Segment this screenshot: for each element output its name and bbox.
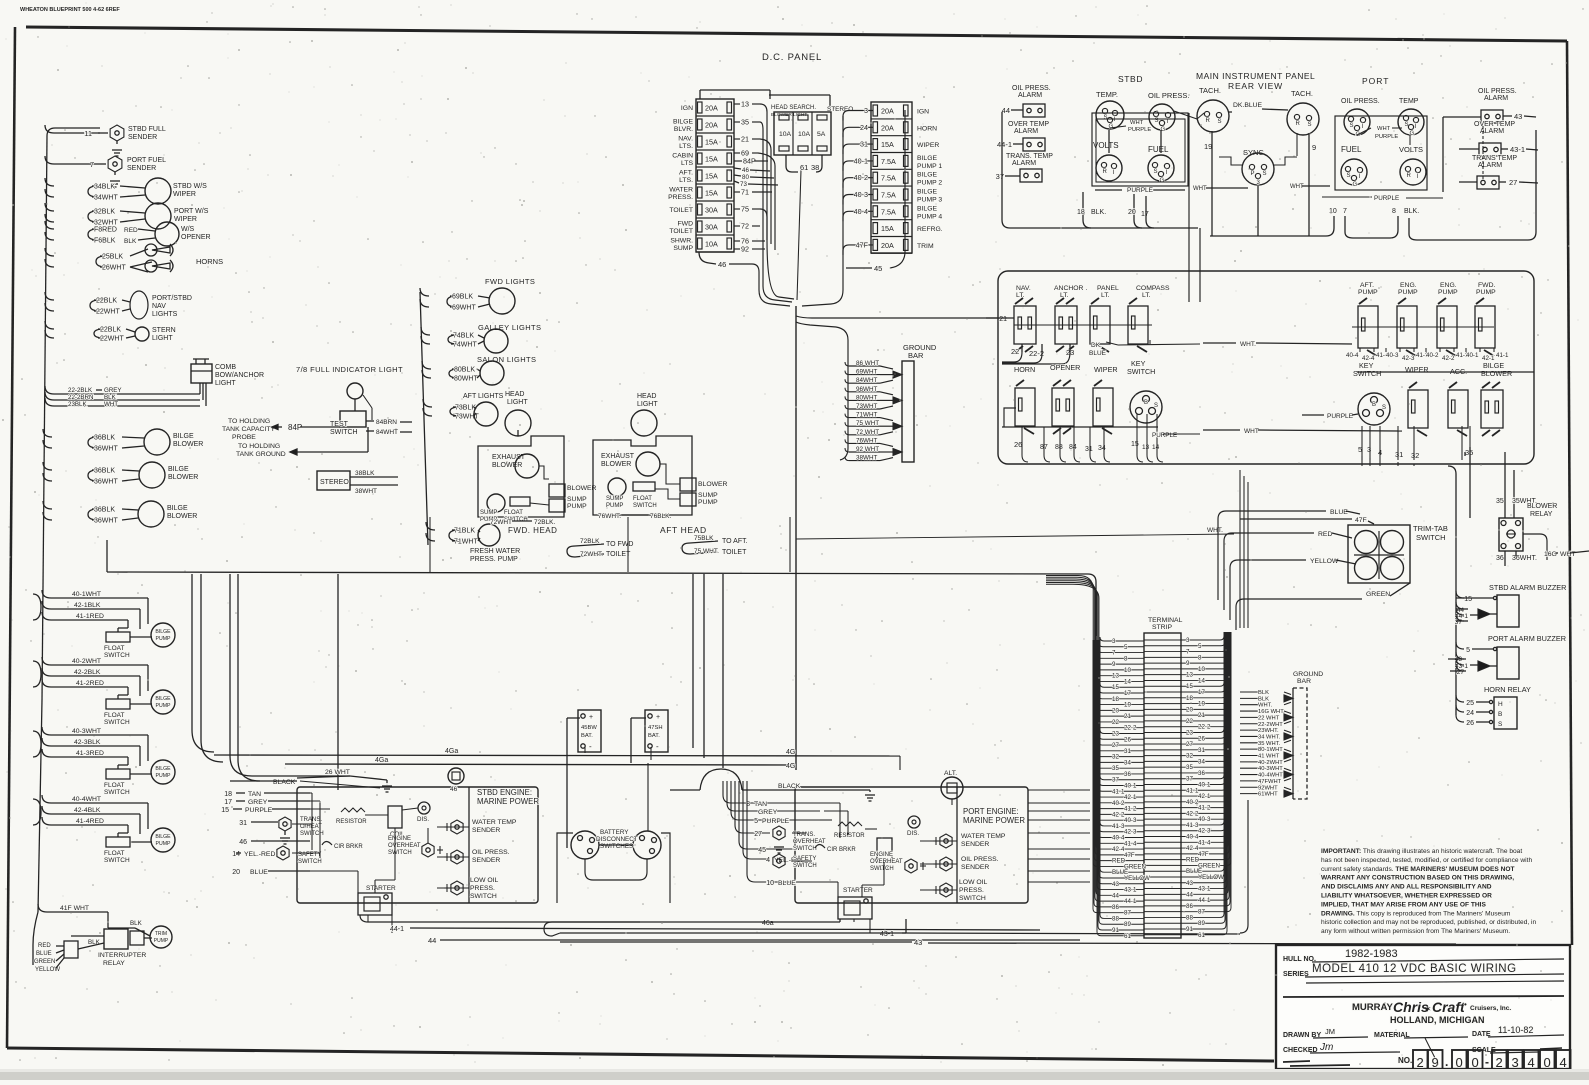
svg-text:•: • xyxy=(1464,1000,1467,1009)
svg-text:72BLK: 72BLK xyxy=(580,538,600,545)
svg-text:STARTER: STARTER xyxy=(843,887,873,894)
svg-text:76WHT: 76WHT xyxy=(856,437,877,444)
svg-text:BAR: BAR xyxy=(1297,678,1311,685)
svg-text:BLOWER: BLOWER xyxy=(168,474,198,481)
svg-text:.: . xyxy=(1445,1055,1448,1069)
svg-text:41-2: 41-2 xyxy=(1124,806,1137,813)
svg-text:40-4: 40-4 xyxy=(1112,835,1125,842)
svg-text:15A: 15A xyxy=(705,172,718,181)
svg-text:9: 9 xyxy=(1312,143,1316,152)
svg-text:SWITCH: SWITCH xyxy=(633,503,657,509)
svg-text:74BLK: 74BLK xyxy=(453,333,474,340)
svg-text:GALLEY LIGHTS: GALLEY LIGHTS xyxy=(478,323,541,332)
svg-text:22-2WHT: 22-2WHT xyxy=(1258,722,1283,728)
svg-text:TRIM-TAB: TRIM-TAB xyxy=(1413,524,1448,533)
svg-text:10A: 10A xyxy=(798,131,811,138)
svg-text:PUMP: PUMP xyxy=(1398,289,1418,296)
svg-text:46: 46 xyxy=(742,167,749,174)
svg-text:LT.: LT. xyxy=(1142,292,1151,299)
svg-text:AFT HEAD: AFT HEAD xyxy=(660,525,707,535)
svg-text:CIR BRKR: CIR BRKR xyxy=(334,844,363,850)
svg-text:BATTERY: BATTERY xyxy=(600,829,629,836)
svg-text:26: 26 xyxy=(1014,440,1022,449)
svg-text:TANK GROUND: TANK GROUND xyxy=(236,451,286,458)
svg-text:S: S xyxy=(1347,173,1351,179)
svg-text:7.5A: 7.5A xyxy=(881,174,896,183)
svg-text:PURPLE: PURPLE xyxy=(245,807,273,814)
svg-text:COMB: COMB xyxy=(215,364,236,371)
svg-text:OPENER: OPENER xyxy=(1050,363,1080,372)
svg-text:S: S xyxy=(1154,169,1158,175)
svg-text:OVER TEMP: OVER TEMP xyxy=(1008,121,1049,128)
svg-text:25: 25 xyxy=(1466,700,1474,707)
svg-text:38: 38 xyxy=(811,163,819,172)
svg-text:36WHT: 36WHT xyxy=(94,518,118,525)
svg-text:PRESS.: PRESS. xyxy=(668,194,693,201)
svg-text:BLUE: BLUE xyxy=(1089,350,1107,357)
svg-text:PUMP: PUMP xyxy=(156,703,172,709)
svg-text:27: 27 xyxy=(1186,741,1193,748)
svg-text:40-4WHT: 40-4WHT xyxy=(1258,773,1283,779)
svg-text:WHT: WHT xyxy=(1290,184,1304,190)
svg-text:40-2: 40-2 xyxy=(1426,352,1439,359)
svg-text:PUMP: PUMP xyxy=(154,938,169,944)
svg-text:40-4: 40-4 xyxy=(1186,834,1199,841)
svg-text:LTS.: LTS. xyxy=(679,143,693,150)
svg-text:WHT.: WHT. xyxy=(1258,703,1273,709)
svg-text:OVER TEMP: OVER TEMP xyxy=(1474,121,1515,128)
svg-text:20A: 20A xyxy=(881,241,894,250)
svg-text:AFT.: AFT. xyxy=(679,170,693,177)
svg-text:SHWR.: SHWR. xyxy=(670,238,693,245)
svg-text:17: 17 xyxy=(1198,689,1205,696)
svg-text:23BLK: 23BLK xyxy=(68,401,87,408)
svg-text:RELAY: RELAY xyxy=(103,960,125,967)
svg-text:44: 44 xyxy=(1186,891,1193,898)
svg-text:NO.: NO. xyxy=(1398,1056,1412,1065)
svg-text:86: 86 xyxy=(1112,904,1119,911)
svg-text:STEREO: STEREO xyxy=(320,479,349,486)
svg-text:91: 91 xyxy=(1186,926,1193,933)
svg-text:34BLK: 34BLK xyxy=(94,184,115,191)
svg-text:4: 4 xyxy=(766,857,770,864)
svg-text:PUMP: PUMP xyxy=(606,503,623,509)
svg-text:35: 35 xyxy=(1496,498,1504,505)
svg-text:IMPLIED, THAT MAY ARISE FROM A: IMPLIED, THAT MAY ARISE FROM ANY USE OF … xyxy=(1321,901,1486,908)
svg-text:BILGE: BILGE xyxy=(155,766,171,772)
svg-text:LIGHTS: LIGHTS xyxy=(152,311,178,318)
svg-text:PUMP: PUMP xyxy=(156,841,172,847)
svg-text:HORNS: HORNS xyxy=(196,257,223,266)
svg-text:TOILET: TOILET xyxy=(606,551,631,558)
svg-text:47SH: 47SH xyxy=(648,725,663,731)
svg-text:84WHT: 84WHT xyxy=(856,377,877,384)
svg-text:OVERHEAT: OVERHEAT xyxy=(793,839,826,845)
svg-text:7/8 FULL INDICATOR LIGHT: 7/8 FULL INDICATOR LIGHT xyxy=(296,365,403,374)
svg-text:7: 7 xyxy=(90,160,94,169)
svg-text:22-2BLK: 22-2BLK xyxy=(68,387,93,394)
svg-text:22: 22 xyxy=(1112,719,1119,726)
svg-text:DK.: DK. xyxy=(1091,342,1102,349)
svg-text:44: 44 xyxy=(1002,106,1010,115)
svg-text:BLK.: BLK. xyxy=(1404,208,1419,215)
svg-text:BILGE: BILGE xyxy=(673,119,693,126)
svg-text:36WHT.: 36WHT. xyxy=(1512,555,1537,562)
svg-text:21: 21 xyxy=(1124,713,1131,720)
svg-text:GREEN: GREEN xyxy=(1366,591,1390,598)
svg-text:41 WHT: 41 WHT xyxy=(1258,754,1280,760)
svg-text:92WHT: 92WHT xyxy=(1258,785,1278,791)
svg-text:S: S xyxy=(1498,721,1503,728)
svg-text:ENGINE: ENGINE xyxy=(870,852,893,858)
svg-text:BAR: BAR xyxy=(908,351,924,360)
svg-text:20A: 20A xyxy=(705,121,718,130)
svg-text:7: 7 xyxy=(1343,208,1347,215)
svg-text:DRAWING. This copy is reprodu: DRAWING. This copy is reproduced from Th… xyxy=(1321,910,1511,917)
svg-text:BILGE: BILGE xyxy=(917,172,937,179)
svg-text:31: 31 xyxy=(1395,450,1403,459)
svg-text:42-2: 42-2 xyxy=(1186,810,1199,817)
svg-text:PROBE: PROBE xyxy=(232,434,256,441)
svg-text:PUMP: PUMP xyxy=(1358,289,1378,296)
svg-text:75 WHT: 75 WHT xyxy=(856,420,879,427)
svg-text:14: 14 xyxy=(1198,677,1205,684)
svg-text:43: 43 xyxy=(1514,112,1522,121)
svg-text:ALARM: ALARM xyxy=(1012,160,1036,167)
svg-text:LOW OIL: LOW OIL xyxy=(470,877,499,884)
svg-text:61: 61 xyxy=(1198,932,1205,939)
svg-text:0: 0 xyxy=(1456,1055,1463,1070)
svg-text:80BLK: 80BLK xyxy=(454,367,475,374)
svg-text:PUMP: PUMP xyxy=(567,503,587,510)
svg-text:26WHT: 26WHT xyxy=(102,265,126,272)
svg-text:5: 5 xyxy=(1198,643,1202,650)
svg-text:73WHT: 73WHT xyxy=(856,403,877,410)
svg-text:26: 26 xyxy=(1198,735,1205,742)
svg-text:ALARM: ALARM xyxy=(1484,95,1508,102)
svg-text:75: 75 xyxy=(741,205,749,214)
svg-text:3: 3 xyxy=(1112,638,1116,645)
svg-text:40-3: 40-3 xyxy=(1124,817,1137,824)
svg-text:41-3RED: 41-3RED xyxy=(76,750,104,757)
svg-text:88: 88 xyxy=(1186,914,1193,921)
svg-text:NAV.: NAV. xyxy=(678,136,693,143)
svg-text:41-2RED: 41-2RED xyxy=(76,680,104,687)
svg-text:Craft: Craft xyxy=(1432,999,1466,1015)
svg-text:WHT: WHT xyxy=(1377,126,1391,132)
svg-text:PUMP: PUMP xyxy=(698,499,718,506)
svg-text:GREY: GREY xyxy=(758,809,778,816)
svg-text:41-4RED: 41-4RED xyxy=(76,818,104,825)
svg-text:0: 0 xyxy=(1472,1055,1479,1070)
svg-text:R: R xyxy=(1296,121,1301,127)
svg-text:ALARM: ALARM xyxy=(1480,128,1504,135)
svg-text:31: 31 xyxy=(1085,446,1093,453)
svg-text:96WHT: 96WHT xyxy=(856,386,877,393)
svg-text:46: 46 xyxy=(450,786,458,793)
svg-text:7.5A: 7.5A xyxy=(881,157,896,166)
svg-text:41-1: 41-1 xyxy=(1112,788,1125,795)
svg-text:9: 9 xyxy=(1432,1055,1439,1070)
svg-text:19: 19 xyxy=(1124,702,1131,709)
svg-text:26 WHT: 26 WHT xyxy=(325,769,350,776)
svg-text:41-4: 41-4 xyxy=(1198,839,1211,846)
svg-text:STBD W/S: STBD W/S xyxy=(173,183,207,190)
svg-text:38WHT: 38WHT xyxy=(355,488,377,495)
svg-text:84WHT: 84WHT xyxy=(376,429,398,436)
svg-text:OPENER: OPENER xyxy=(181,234,211,241)
svg-text:BILGE: BILGE xyxy=(917,155,937,162)
svg-text:40-3WHT: 40-3WHT xyxy=(72,728,101,735)
svg-text:TRIM: TRIM xyxy=(917,243,934,250)
svg-text:STERN: STERN xyxy=(152,327,176,334)
svg-text:BLK.: BLK. xyxy=(1091,209,1106,216)
svg-text:9: 9 xyxy=(1112,661,1116,668)
svg-text:44-1: 44-1 xyxy=(390,926,404,933)
svg-text:43-1: 43-1 xyxy=(880,931,894,938)
svg-text:PANEL: PANEL xyxy=(1097,285,1119,292)
svg-text:42-3BLK: 42-3BLK xyxy=(74,739,101,746)
svg-text:46: 46 xyxy=(718,260,726,269)
svg-text:S: S xyxy=(1350,123,1354,129)
svg-text:18: 18 xyxy=(1186,695,1193,702)
svg-text:15A: 15A xyxy=(705,138,718,147)
svg-text:4G: 4G xyxy=(786,763,795,770)
svg-text:4Ga: 4Ga xyxy=(375,757,388,764)
svg-text:NAV.: NAV. xyxy=(1016,285,1031,292)
svg-text:ALARM: ALARM xyxy=(1478,162,1502,169)
svg-text:46: 46 xyxy=(239,839,247,846)
svg-text:STBD: STBD xyxy=(1118,74,1143,84)
svg-text:DIS.: DIS. xyxy=(907,830,919,837)
svg-text:TRANS.: TRANS. xyxy=(300,817,322,823)
svg-text:18: 18 xyxy=(224,791,232,798)
svg-text:72WHT.: 72WHT. xyxy=(580,551,603,558)
svg-text:43-1: 43-1 xyxy=(1510,145,1525,154)
svg-text:69WHT: 69WHT xyxy=(452,305,476,312)
svg-text:BLOWER: BLOWER xyxy=(567,485,597,492)
svg-text:STBD ENGINE:: STBD ENGINE: xyxy=(477,788,532,797)
svg-text:BLOWER: BLOWER xyxy=(167,513,197,520)
svg-text:WHT: WHT xyxy=(1193,186,1207,192)
svg-text:23WHT.: 23WHT. xyxy=(1258,728,1279,734)
svg-text:FLOAT: FLOAT xyxy=(104,645,124,652)
svg-text:9: 9 xyxy=(1186,660,1190,667)
svg-text:PORT ENGINE:: PORT ENGINE: xyxy=(963,807,1019,816)
svg-text:18: 18 xyxy=(1077,209,1085,216)
svg-text:15A: 15A xyxy=(881,224,894,233)
svg-text:GREY: GREY xyxy=(104,387,122,394)
svg-text:14: 14 xyxy=(1124,678,1131,685)
svg-text:72: 72 xyxy=(741,222,749,231)
svg-text:19: 19 xyxy=(1204,142,1212,151)
svg-text:86: 86 xyxy=(1186,903,1193,910)
svg-text:OIL PRESS.: OIL PRESS. xyxy=(472,849,510,856)
svg-text:FLOAT: FLOAT xyxy=(504,510,523,516)
svg-text:BLUE: BLUE xyxy=(250,869,268,876)
svg-text:F6BLK: F6BLK xyxy=(94,238,116,245)
svg-text:MARINE POWER: MARINE POWER xyxy=(963,816,1025,825)
svg-text:PUMP 4: PUMP 4 xyxy=(917,213,942,220)
svg-text:TERMINAL: TERMINAL xyxy=(1148,617,1183,624)
svg-text:42-1: 42-1 xyxy=(1124,794,1137,801)
svg-text:2: 2 xyxy=(1496,1055,1503,1070)
svg-text:PURPLE: PURPLE xyxy=(1127,187,1154,194)
svg-text:40-1: 40-1 xyxy=(854,156,868,165)
svg-text:ANCHOR .: ANCHOR . xyxy=(1054,285,1087,292)
svg-text:ENG.: ENG. xyxy=(1400,282,1417,289)
svg-text:44: 44 xyxy=(428,936,436,945)
svg-text:MODEL 410 12 VDC BASIC WIRING: MODEL 410 12 VDC BASIC WIRING xyxy=(1312,963,1517,975)
svg-text:historic collection and may no: historic collection and may not be repro… xyxy=(1321,919,1536,926)
svg-text:69WHT: 69WHT xyxy=(856,369,877,376)
svg-text:B: B xyxy=(1498,711,1502,718)
svg-text:4: 4 xyxy=(1560,1055,1567,1070)
svg-text:PURPLE: PURPLE xyxy=(1152,432,1177,439)
svg-text:17: 17 xyxy=(224,799,232,806)
svg-text:11-10-82: 11-10-82 xyxy=(1498,1025,1533,1035)
svg-text:FUEL: FUEL xyxy=(1148,145,1169,154)
svg-text:84: 84 xyxy=(1069,444,1077,451)
svg-text:PURPLE: PURPLE xyxy=(1128,127,1151,133)
svg-text:45BW: 45BW xyxy=(581,725,597,731)
svg-text:COMPASS: COMPASS xyxy=(1136,285,1170,292)
svg-text:SENDER: SENDER xyxy=(472,827,500,834)
svg-text:91: 91 xyxy=(1112,927,1119,934)
svg-text:SUMP: SUMP xyxy=(698,492,718,499)
svg-text:75BLK: 75BLK xyxy=(694,535,714,542)
svg-text:STRIP: STRIP xyxy=(1152,624,1172,631)
svg-text:25BLK: 25BLK xyxy=(102,254,123,261)
svg-text:84BRN: 84BRN xyxy=(376,419,397,426)
svg-text:IMPORTANT: This drawing illus: IMPORTANT: This drawing illustrates an h… xyxy=(1321,848,1522,855)
svg-text:22: 22 xyxy=(1011,347,1019,356)
svg-text:TRANS. TEMP: TRANS. TEMP xyxy=(1006,153,1053,160)
svg-text:35: 35 xyxy=(1186,764,1193,771)
svg-text:WHT.: WHT. xyxy=(1207,527,1223,534)
svg-text:15: 15 xyxy=(1112,684,1119,691)
svg-text:18: 18 xyxy=(1112,696,1119,703)
svg-text:BAT.: BAT. xyxy=(581,733,593,739)
svg-text:34: 34 xyxy=(1198,758,1205,765)
svg-text:RED: RED xyxy=(38,943,51,949)
svg-text:SWITCH: SWITCH xyxy=(870,866,894,872)
svg-text:72 WHT: 72 WHT xyxy=(856,429,879,436)
svg-text:H: H xyxy=(1498,701,1503,708)
svg-text:19: 19 xyxy=(1198,701,1205,708)
svg-text:2: 2 xyxy=(1417,1055,1424,1070)
svg-text:1982-1983: 1982-1983 xyxy=(1345,948,1398,960)
svg-text:G: G xyxy=(1109,124,1114,130)
svg-text:42-3: 42-3 xyxy=(1198,828,1211,835)
svg-text:38WHT: 38WHT xyxy=(856,455,877,462)
svg-text:LIGHT: LIGHT xyxy=(152,335,173,342)
svg-text:89: 89 xyxy=(1198,920,1205,927)
svg-text:has not been inspected, tested: has not been inspected, tested, modified… xyxy=(1321,857,1532,864)
svg-text:CIR BRKR: CIR BRKR xyxy=(827,847,856,853)
svg-text:22-2BRN: 22-2BRN xyxy=(68,394,93,401)
svg-text:WATER TEMP: WATER TEMP xyxy=(472,819,517,826)
svg-text:76WHT.: 76WHT. xyxy=(598,513,621,520)
svg-text:42-2: 42-2 xyxy=(1442,355,1455,362)
svg-text:20: 20 xyxy=(1112,707,1119,714)
svg-text:40-1: 40-1 xyxy=(1466,352,1479,359)
svg-text:15: 15 xyxy=(1131,441,1139,448)
svg-text:LTS: LTS xyxy=(681,160,693,167)
svg-text:71WHT: 71WHT xyxy=(454,539,478,546)
svg-text:61: 61 xyxy=(1124,933,1131,940)
svg-text:-: - xyxy=(589,742,592,751)
svg-text:22-2: 22-2 xyxy=(1198,724,1211,731)
svg-text:YELLOW: YELLOW xyxy=(1198,874,1224,881)
svg-text:8: 8 xyxy=(1124,655,1128,662)
svg-text:22WHT: 22WHT xyxy=(96,309,120,316)
svg-text:40-3WHT: 40-3WHT xyxy=(1258,766,1283,772)
svg-text:43-1: 43-1 xyxy=(1198,886,1211,893)
svg-text:4G: 4G xyxy=(786,749,795,756)
svg-text:SWITCH: SWITCH xyxy=(1353,369,1381,378)
svg-text:7: 7 xyxy=(1112,650,1116,657)
svg-text:BLK: BLK xyxy=(1258,690,1269,696)
svg-text:BILGE: BILGE xyxy=(917,205,937,212)
svg-text:TANK CAPACITY: TANK CAPACITY xyxy=(222,426,275,433)
svg-text:TRANS TEMP: TRANS TEMP xyxy=(1472,155,1517,162)
svg-text:WIPER: WIPER xyxy=(1405,365,1429,374)
svg-text:BLACK: BLACK xyxy=(273,779,296,786)
svg-text:37: 37 xyxy=(996,172,1004,181)
svg-text:43: 43 xyxy=(1186,880,1193,887)
svg-text:20: 20 xyxy=(1128,209,1136,216)
svg-text:WHEATON BLUEPRINT 500 4-62 6RE: WHEATON BLUEPRINT 500 4-62 6REF xyxy=(20,7,120,13)
svg-text:PURPLE: PURPLE xyxy=(762,818,790,825)
svg-text:10: 10 xyxy=(1124,667,1131,674)
svg-text:87: 87 xyxy=(1198,909,1205,916)
svg-text:REAR VIEW: REAR VIEW xyxy=(1228,81,1283,91)
svg-text:40-2WHT: 40-2WHT xyxy=(1258,760,1283,766)
svg-text:3: 3 xyxy=(1186,637,1190,644)
svg-text:DIS.: DIS. xyxy=(417,816,429,823)
svg-text:SWITCH: SWITCH xyxy=(330,429,358,436)
svg-text:SWITCH: SWITCH xyxy=(388,850,412,856)
svg-text:HORN: HORN xyxy=(1014,365,1035,374)
svg-text:LIGHT: LIGHT xyxy=(637,401,658,408)
svg-text:WHT: WHT xyxy=(1130,120,1144,126)
svg-text:IGN: IGN xyxy=(917,109,929,116)
svg-text:10A: 10A xyxy=(705,240,718,249)
svg-text:32: 32 xyxy=(1186,753,1193,760)
svg-text:35: 35 xyxy=(741,118,749,127)
svg-text:SWITCHES: SWITCHES xyxy=(600,843,633,850)
svg-text:34 WHT.: 34 WHT. xyxy=(1258,734,1281,740)
svg-text:42-3: 42-3 xyxy=(1124,829,1137,836)
svg-text:S: S xyxy=(1154,403,1158,409)
svg-text:BILGE: BILGE xyxy=(155,696,171,702)
svg-text:TO AFT.: TO AFT. xyxy=(722,538,748,545)
svg-text:LT.: LT. xyxy=(1101,292,1110,299)
svg-text:42-3: 42-3 xyxy=(1402,355,1415,362)
svg-text:26: 26 xyxy=(1124,736,1131,743)
svg-text:BILGE: BILGE xyxy=(173,433,194,440)
svg-text:BLOWER: BLOWER xyxy=(1527,503,1557,510)
svg-text:Jm: Jm xyxy=(1319,1042,1333,1053)
svg-text:72WHT: 72WHT xyxy=(490,519,512,526)
svg-text:15: 15 xyxy=(1464,596,1472,603)
svg-text:71WHT: 71WHT xyxy=(856,412,877,419)
svg-text:BLOWER: BLOWER xyxy=(601,461,631,468)
svg-text:88: 88 xyxy=(1112,915,1119,922)
svg-text:SUMP: SUMP xyxy=(567,496,587,503)
svg-text:15A: 15A xyxy=(705,189,718,198)
